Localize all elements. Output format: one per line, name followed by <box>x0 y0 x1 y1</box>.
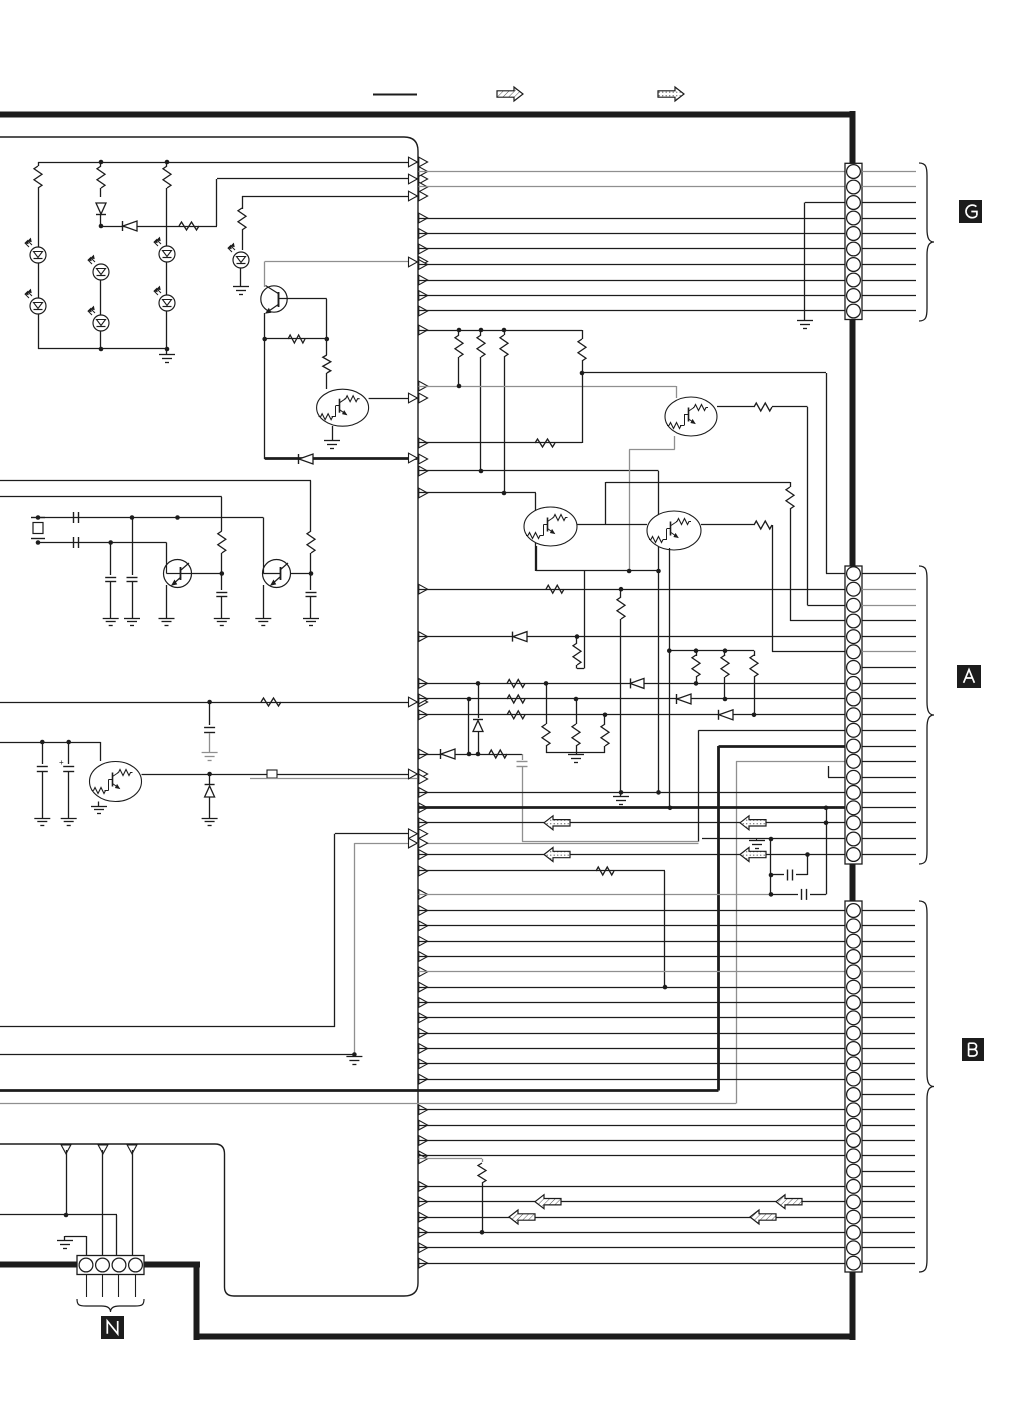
connector B pin 4 <box>847 950 861 964</box>
wire to A1 <box>826 573 845 575</box>
wire to B20 <box>419 1201 846 1203</box>
wire to B1 <box>419 910 846 912</box>
legend hatched arrow <box>497 87 523 101</box>
wire diode drop <box>209 774 211 784</box>
connector G pin 10 <box>847 304 861 318</box>
block boundary arrows (out of bus) <box>419 157 428 167</box>
diode D5 <box>440 749 442 759</box>
capacitor C16 <box>306 592 317 594</box>
resistor R5 <box>535 439 555 447</box>
svg-text:+: + <box>59 758 64 767</box>
connector A pin 8 <box>847 677 861 691</box>
resistor R3 <box>504 330 506 335</box>
ground lower-left <box>346 1056 362 1058</box>
wire L-net riser <box>334 834 336 1027</box>
connector B pin 12 <box>847 1072 861 1086</box>
wire to A4 <box>790 620 845 622</box>
resistor R20 <box>261 698 281 706</box>
wire to B12 <box>419 1079 846 1081</box>
signal arrow B21 a <box>509 1210 535 1224</box>
signal arrow down 1 <box>61 1145 71 1154</box>
connector N pin 1 <box>79 1258 93 1272</box>
LED D17 <box>159 246 175 262</box>
diode D3 <box>676 694 678 704</box>
wire to bus pin <box>217 178 417 180</box>
gray net with resistor to B22 <box>419 1158 483 1160</box>
connector A pin 13 <box>847 754 861 768</box>
ground C14 <box>124 618 140 620</box>
wire to A3 <box>808 605 846 607</box>
wire to B10 <box>419 1048 846 1050</box>
wire crystal bottom row <box>38 542 167 544</box>
wire input row lower <box>0 496 222 498</box>
gray net row crossing bus <box>354 843 698 845</box>
wire row to N pin3 <box>0 1214 117 1216</box>
resistor R15 <box>238 208 246 230</box>
connector B <box>845 901 862 1272</box>
wire to B22 <box>419 1232 846 1234</box>
label B <box>962 1038 984 1061</box>
wire diode row <box>101 226 217 228</box>
resistor R19 <box>307 531 315 553</box>
wire LED return rail <box>38 348 167 350</box>
LED D16 <box>93 315 109 331</box>
resistor R2 <box>480 330 482 335</box>
wire to A19 <box>419 854 846 856</box>
ground C19 <box>61 818 77 820</box>
capacitor C19 electrolytic <box>68 742 70 764</box>
wire Q2 emitter ground <box>166 585 168 618</box>
wire to B16 <box>419 1140 846 1142</box>
gray wire to G1 <box>419 171 846 173</box>
gray row crossing bus <box>0 1103 736 1105</box>
ground A18 net <box>756 839 758 841</box>
resistor R28 <box>489 750 507 758</box>
connector A pin 18 <box>847 832 861 846</box>
signal arrow A19 b <box>740 848 766 862</box>
gray riser <box>736 761 738 1103</box>
wire input row upper <box>0 480 311 482</box>
label A <box>957 665 981 688</box>
gray net riser <box>354 843 356 1054</box>
connector B pin 7 <box>847 996 861 1010</box>
connector B pin 14 <box>847 1103 861 1117</box>
wire L-net row to bus <box>335 833 417 835</box>
gray drop with capacitor <box>522 754 524 760</box>
capacitor C18 <box>42 742 44 764</box>
diode D4 <box>718 710 720 720</box>
wire to B14 <box>419 1109 846 1111</box>
resistor bank A row verticals <box>478 683 480 718</box>
ground D21 <box>202 818 218 820</box>
diode D11 <box>96 203 106 214</box>
connector B pin 20 <box>847 1195 861 1209</box>
wire row to R4 riser <box>419 442 583 444</box>
connector G pin 9 <box>847 289 861 303</box>
resistor R18 <box>218 531 226 553</box>
wire to A9 <box>419 698 846 700</box>
wire row to DT2 top <box>419 470 659 472</box>
wire to A10 <box>419 714 846 716</box>
brace connector B <box>919 901 934 1272</box>
diode D12 <box>122 221 124 231</box>
connector G pin 5 <box>847 227 861 241</box>
wire N drop 1 <box>66 1150 68 1215</box>
wire to A5 <box>419 636 846 638</box>
wire to connector A3 net <box>772 406 808 408</box>
connector A pin 6 <box>847 645 861 659</box>
resistor R11 <box>38 162 40 166</box>
connector B pin 21 <box>847 1210 861 1224</box>
resistor R21 <box>576 637 578 643</box>
signal arrow A19 a <box>544 848 570 862</box>
wire gray net from Q1 collector to bus <box>265 261 418 263</box>
resistor R7 <box>790 482 792 487</box>
wire to G6 <box>419 248 846 250</box>
signal arrow B20 b <box>776 1195 802 1209</box>
digital transistor DT1a <box>317 389 369 426</box>
wire row A4 net upper <box>606 482 790 484</box>
LED D14 <box>30 298 46 314</box>
wire to B2 <box>419 925 846 927</box>
connector A pin 16 <box>847 801 861 815</box>
digital transistor DT1 <box>665 397 717 436</box>
connector B pin 11 <box>847 1057 861 1071</box>
ground A15 net <box>620 792 622 797</box>
connector B pin 5 <box>847 965 861 979</box>
wire cap drop 1 <box>110 543 112 576</box>
thick wire to connector N right side <box>144 1262 200 1268</box>
signal arrow A17 b <box>740 816 766 830</box>
gray wire DT1 emitter <box>674 436 676 450</box>
signal arrow down 2 <box>98 1145 108 1154</box>
wire row to DT3 top <box>419 492 505 494</box>
wire DT3 out to DT2 base <box>577 524 647 526</box>
resistor R17 <box>326 339 328 355</box>
frame ground bus right edge <box>850 111 856 163</box>
wire DT3 emitter <box>536 546 538 571</box>
wire Q1 base riser <box>326 299 328 339</box>
LED D15 <box>93 264 109 280</box>
connector N pin 4 <box>129 1258 143 1272</box>
block boundary arrows (into bus) <box>409 157 418 167</box>
gray capacitor net row 894 <box>419 894 772 896</box>
ground for LED D19 <box>233 286 249 288</box>
wire DT1a output to bus <box>369 398 418 400</box>
capacitor C13 <box>105 577 116 579</box>
ground C18 <box>34 818 50 820</box>
resistor R16 <box>288 335 305 343</box>
gray wire DT1 base <box>419 386 677 388</box>
wire N drop 2 <box>102 1150 104 1256</box>
connector B pin 15 <box>847 1118 861 1132</box>
wire R4 to connector A1 net <box>582 372 826 374</box>
wire to connector A6 net <box>772 525 774 652</box>
wire to A2 <box>419 589 846 591</box>
wire to A17 <box>419 822 846 824</box>
wire pull-down rail <box>546 752 605 754</box>
signal arrow B20 a <box>535 1195 561 1209</box>
wire ground row <box>0 1054 354 1056</box>
wire to A18 <box>702 838 845 840</box>
thick wire to connector N left side <box>0 1262 78 1268</box>
block boundary arrows for connector B rows <box>419 906 428 916</box>
wire to B19 <box>419 1186 846 1188</box>
ground G3 <box>797 320 813 322</box>
wire N drop 3 <box>132 1150 134 1256</box>
connector G pin 8 <box>847 273 861 287</box>
ground LED rail <box>159 354 175 356</box>
signal arrow A17 a <box>544 816 570 830</box>
diode D2 <box>630 678 632 688</box>
wire to B24 <box>419 1263 846 1265</box>
wire lower cluster rail <box>0 742 101 744</box>
connector N pin 3 <box>112 1258 126 1272</box>
connector B pin 19 <box>847 1180 861 1194</box>
connector B pin 13 <box>847 1088 861 1102</box>
resistor R1 <box>458 330 460 335</box>
thick wire to A12 <box>719 745 846 748</box>
connector A pin 15 <box>847 786 861 800</box>
wire DT1 output <box>717 406 754 408</box>
gray return row from bus <box>250 778 417 780</box>
thick riser <box>717 746 720 1091</box>
gray wire to G2 <box>419 186 846 188</box>
ground C15 <box>214 618 230 620</box>
legend dotted arrow <box>658 87 684 101</box>
frame ground bus bottom edge <box>194 1334 856 1340</box>
connector A pin 14 <box>847 770 861 784</box>
connector A pin 17 <box>847 816 861 830</box>
frame ground bus left-bottom riser <box>194 1262 200 1340</box>
connector A pin 10 <box>847 708 861 722</box>
wire DT4 output row to bus <box>142 774 418 776</box>
LED D18 <box>159 295 175 311</box>
wire to G4 <box>419 218 846 220</box>
wire to B5 <box>419 971 846 973</box>
wire cap drop 2 <box>132 518 134 576</box>
wire to G5 <box>419 233 846 235</box>
wire Q3 out <box>291 573 312 575</box>
connector B pin 2 <box>847 919 861 933</box>
ground Q3 <box>255 618 271 620</box>
connector G pin 3 <box>847 196 861 210</box>
pull-down resistor R26 <box>576 699 578 724</box>
LED D19 <box>233 252 249 268</box>
diode D20 <box>298 454 300 464</box>
resistor R12 <box>100 162 102 166</box>
thick wire diode net to bus <box>265 457 418 460</box>
thick row crossing bus <box>0 1089 719 1092</box>
wire DT2 emitter <box>669 548 671 808</box>
wire riser from A4 net <box>605 482 607 525</box>
pull-up resistor R31 <box>754 651 756 656</box>
connector B pin 3 <box>847 934 861 948</box>
resistor R23 <box>507 695 525 703</box>
wire row diode-resistor to gray drop <box>419 754 523 756</box>
connector B pin 9 <box>847 1026 861 1040</box>
signal arrow B21 b <box>750 1210 776 1224</box>
frame ground bus top edge <box>0 112 853 118</box>
capacitor C15 <box>216 592 227 594</box>
wire to A6 <box>772 651 845 653</box>
ground C13 <box>103 618 119 620</box>
wire to B8 <box>419 1017 846 1019</box>
connector A pin 19 <box>847 848 861 862</box>
connector B pin 18 <box>847 1164 861 1178</box>
ground pull-down rail <box>576 753 578 755</box>
wire to G10 <box>419 310 846 312</box>
wire to B6 <box>419 987 846 989</box>
ground DT1a <box>324 440 340 442</box>
connector A pin 7 <box>847 661 861 675</box>
wire to B17 <box>419 1155 846 1157</box>
transistor Q2 <box>166 543 168 563</box>
LED D13 <box>30 247 46 263</box>
connector B pin 1 <box>847 904 861 918</box>
ground Q2 <box>159 618 175 620</box>
resistor R8 <box>754 521 772 529</box>
crystal X1 <box>31 517 45 519</box>
digital transistor DT2 <box>647 511 701 550</box>
diode D1 <box>512 632 514 642</box>
wire Q2 out <box>191 573 222 575</box>
capacitor C12 <box>73 537 75 548</box>
connector B pin 6 <box>847 980 861 994</box>
connector G pin 1 <box>847 165 861 179</box>
wire to G9 <box>419 295 846 297</box>
connector A pin 4 <box>847 614 861 628</box>
wire Q1 emitter down <box>264 313 266 339</box>
connector B pin 22 <box>847 1226 861 1240</box>
wire to A8 <box>419 683 846 685</box>
wire LED supply rail <box>38 162 417 164</box>
IC block boundary (rounded box) <box>0 137 418 1296</box>
riser from A17 to cap row <box>826 808 828 895</box>
digital transistor DT3 <box>524 507 577 546</box>
ground C16 <box>303 618 319 620</box>
wire cap drop <box>209 702 211 725</box>
wire to A14 <box>828 777 845 779</box>
pull-down resistor R27 <box>604 715 606 724</box>
connector G <box>845 163 862 319</box>
connector B pin 24 <box>847 1256 861 1270</box>
resistor R9 <box>546 585 564 593</box>
wires G pins right side <box>862 171 916 173</box>
ground C17 <box>202 752 218 754</box>
label G <box>959 200 982 223</box>
pull-up resistor R30 <box>724 651 726 656</box>
connector N <box>77 1256 144 1275</box>
wire resistor bank rail <box>419 330 583 332</box>
resistor R22 <box>507 679 525 687</box>
wire to G7 <box>419 264 846 266</box>
wire to G8 <box>419 280 846 282</box>
thick wire to A16 <box>419 806 846 809</box>
connector B pin 16 <box>847 1134 861 1148</box>
connector B pin 17 <box>847 1149 861 1163</box>
wire stub <box>166 349 168 355</box>
wire to bus pin <box>242 196 417 198</box>
connector B pin 10 <box>847 1042 861 1056</box>
wire LED3 column riser <box>242 196 244 209</box>
wire N pin tails <box>86 1275 88 1298</box>
connector A pin 12 <box>847 739 861 753</box>
wire to B7 <box>419 1002 846 1004</box>
wire DT2 output <box>701 524 754 526</box>
wire emitter row <box>536 570 659 572</box>
connector A pin 9 <box>847 692 861 706</box>
connector N pin 2 <box>96 1258 110 1272</box>
legend wire sample <box>373 94 417 96</box>
capacitor C14 <box>127 577 138 579</box>
capacitor C11 <box>73 512 75 523</box>
wire to A11 <box>699 730 846 732</box>
wire L-net bottom row <box>0 1026 335 1028</box>
wire to B21 <box>419 1217 846 1219</box>
wires A pins right side <box>862 573 916 575</box>
resistor R4 <box>582 330 584 339</box>
pull-down resistor R25 <box>546 683 548 724</box>
label N <box>101 1316 124 1339</box>
connector A <box>845 566 862 864</box>
wires B pins right side <box>862 910 915 912</box>
gray row into riser <box>522 841 699 843</box>
wire pull-up rail cluster <box>669 650 754 652</box>
connector A pin 5 <box>847 630 861 644</box>
resistor R10 riser <box>620 589 622 597</box>
digital transistor DT4 <box>90 762 142 802</box>
wire to B11 <box>419 1063 846 1065</box>
transistor Q3 <box>263 518 265 563</box>
resistor R14 <box>179 222 199 230</box>
wire to B15 <box>419 1125 846 1127</box>
wire DT4 emitter <box>98 802 100 807</box>
transistor Q1 <box>264 262 266 288</box>
wire to B9 <box>419 1033 846 1035</box>
wire DT1a emitter <box>332 426 334 441</box>
wire riser to diode net <box>264 339 266 459</box>
connector G pin 6 <box>847 242 861 256</box>
connector G pin 2 <box>847 180 861 194</box>
connector G pin 7 <box>847 258 861 272</box>
brace connector N <box>77 1299 144 1312</box>
gray wire to A13 <box>736 761 845 763</box>
wire G3 ground net <box>805 202 845 204</box>
resistor R24 <box>507 711 525 719</box>
connector A pin 11 <box>847 723 861 737</box>
connector B pin 23 <box>847 1241 861 1255</box>
signal arrow down 3 <box>127 1145 137 1154</box>
diode D21 <box>205 786 215 797</box>
connector G pin 4 <box>847 211 861 225</box>
connector A pin 1 <box>847 567 861 581</box>
wire to A15 <box>419 792 846 794</box>
wire riser A11 net <box>698 730 700 841</box>
ground DT4 <box>91 806 107 808</box>
brace connector G <box>919 163 934 321</box>
capacitor C17 <box>204 727 215 729</box>
wire crystal top row <box>38 517 263 519</box>
wire to B4 <box>419 956 846 958</box>
wire riser to bus <box>216 179 218 226</box>
pull-up resistor R29 <box>696 651 698 656</box>
connector A pin 3 <box>847 598 861 612</box>
connector B pin 8 <box>847 1011 861 1025</box>
wire long mid row to bus <box>0 702 417 704</box>
ground near N <box>86 1236 88 1256</box>
wire feedback row <box>265 338 327 340</box>
